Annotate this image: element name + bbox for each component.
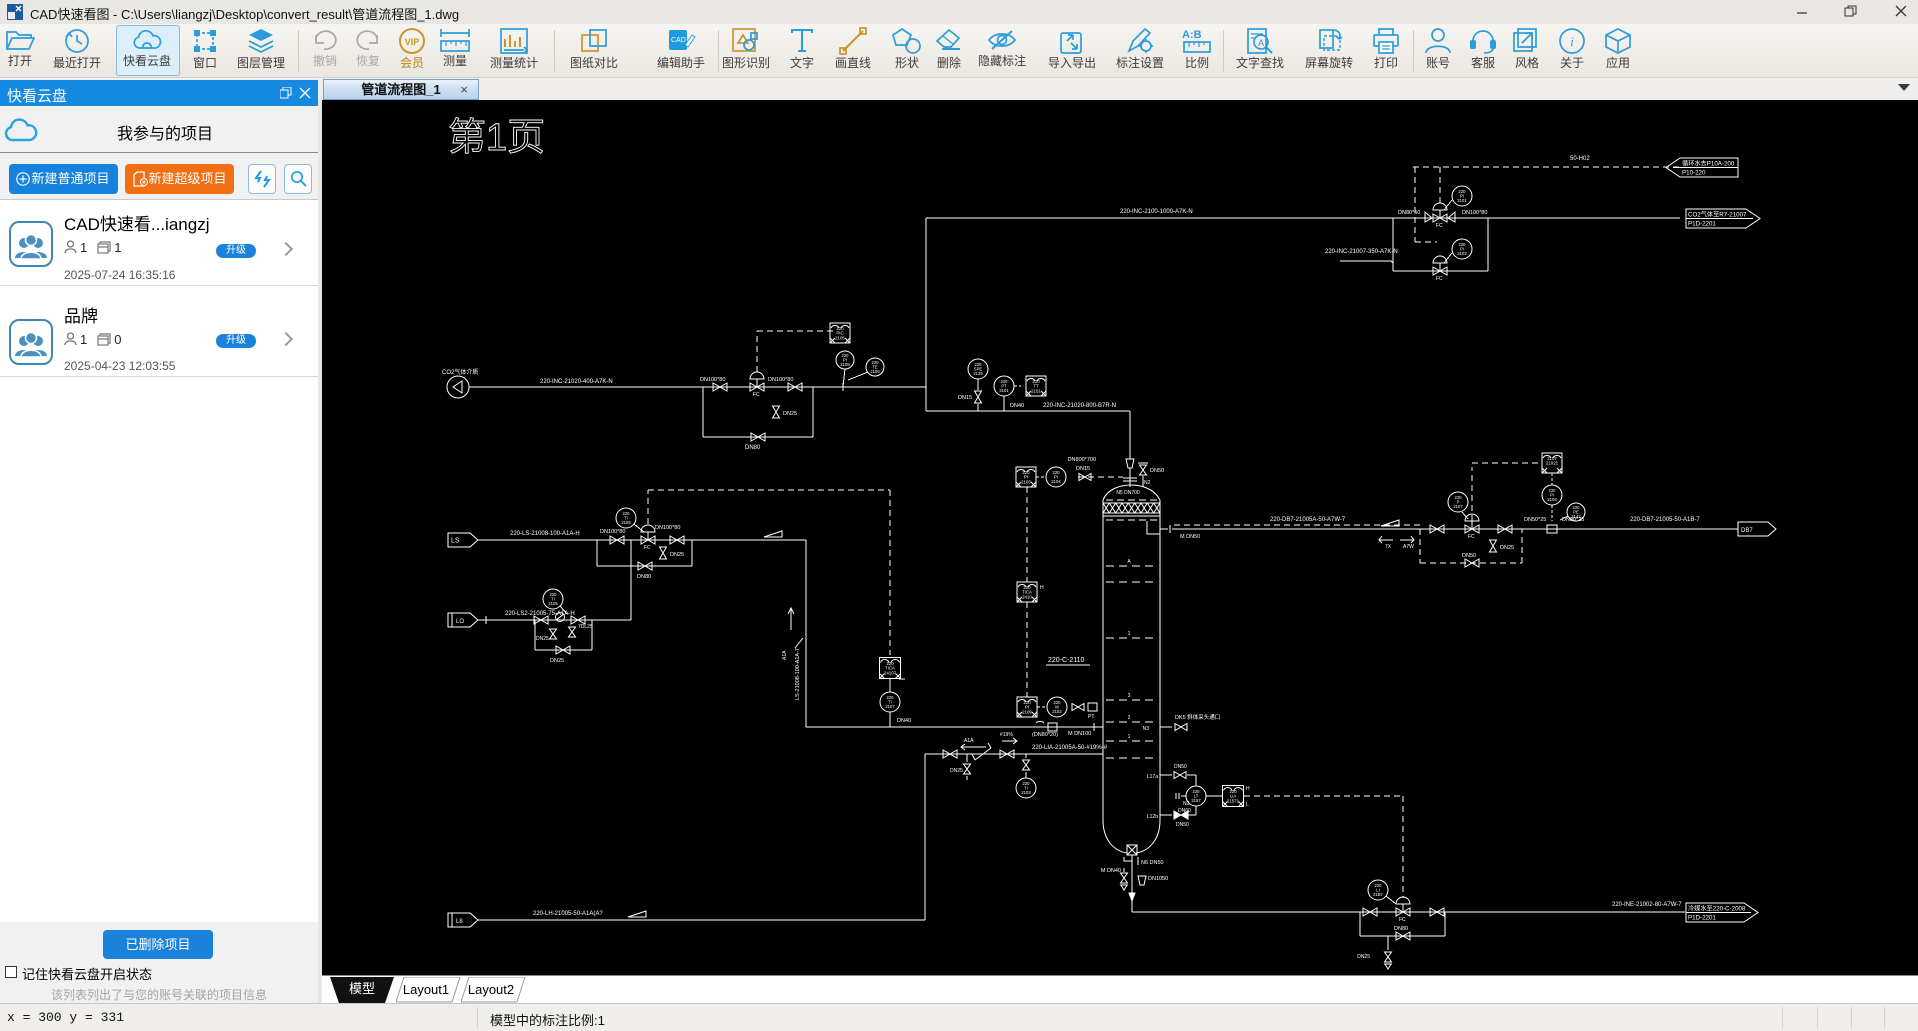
svg-text:L8: L8 bbox=[456, 919, 463, 925]
svg-text:DN100*80: DN100*80 bbox=[768, 377, 793, 383]
svg-text:DN80: DN80 bbox=[1394, 926, 1408, 932]
svg-text:DN50: DN50 bbox=[1176, 822, 1189, 828]
svg-text:DN15: DN15 bbox=[1076, 466, 1090, 472]
svg-text:2101: 2101 bbox=[999, 388, 1009, 393]
svg-text:7DL25: 7DL25 bbox=[578, 624, 593, 630]
svg-text:21B7: 21B7 bbox=[1373, 892, 1383, 897]
svg-text:N2: N2 bbox=[1144, 480, 1151, 486]
svg-text:2104: 2104 bbox=[1051, 479, 1061, 484]
svg-text:DN100*80: DN100*80 bbox=[700, 377, 725, 383]
svg-text:M DN50: M DN50 bbox=[1180, 534, 1200, 540]
svg-text:CO2气体介质: CO2气体介质 bbox=[442, 368, 478, 376]
svg-text:2102: 2102 bbox=[1457, 251, 1467, 256]
svg-text:DN80*25: DN80*25 bbox=[1562, 517, 1584, 523]
svg-text:220-C-2110: 220-C-2110 bbox=[1048, 657, 1085, 664]
svg-text:FC: FC bbox=[1468, 534, 1475, 540]
svg-text:2109: 2109 bbox=[1022, 709, 1032, 714]
svg-text:FC: FC bbox=[753, 392, 760, 398]
svg-text:DN15: DN15 bbox=[958, 395, 972, 401]
svg-text:DB7: DB7 bbox=[1741, 528, 1753, 534]
svg-text:A: A bbox=[1258, 38, 1264, 48]
svg-text:循环水去P10A-200: 循环水去P10A-200 bbox=[1682, 160, 1735, 168]
svg-text:50-H02: 50-H02 bbox=[1570, 156, 1590, 162]
svg-text:M DN40: M DN40 bbox=[1101, 868, 1121, 874]
svg-text:21021: 21021 bbox=[1546, 461, 1559, 466]
svg-text:H: H bbox=[1040, 585, 1044, 591]
svg-text:L17a: L17a bbox=[1147, 774, 1158, 780]
svg-text:A1A: A1A bbox=[782, 650, 788, 660]
svg-text:1: 1 bbox=[1128, 734, 1131, 740]
svg-text:24107: 24107 bbox=[884, 670, 897, 675]
svg-text:(DN80*20): (DN80*20) bbox=[1032, 732, 1058, 738]
svg-text:DN40: DN40 bbox=[897, 718, 911, 724]
svg-text:LO: LO bbox=[456, 619, 464, 625]
svg-text:H: H bbox=[1246, 786, 1250, 792]
svg-text:N5 DN700: N5 DN700 bbox=[1116, 490, 1140, 496]
svg-text:DN1050: DN1050 bbox=[1148, 876, 1168, 882]
svg-text:DN80*50: DN80*50 bbox=[1398, 210, 1420, 216]
svg-text:N3: N3 bbox=[1143, 726, 1150, 732]
svg-text:220-LIA-21005A-50-#19%-#: 220-LIA-21005A-50-#19%-# bbox=[1032, 745, 1108, 751]
svg-text:DN25: DN25 bbox=[950, 768, 963, 774]
svg-text:P1D-2201: P1D-2201 bbox=[1688, 221, 1716, 228]
svg-text:2108: 2108 bbox=[1547, 497, 1557, 502]
svg-text:220-INC-2100-1000-A7K-N: 220-INC-2100-1000-A7K-N bbox=[1120, 209, 1193, 215]
svg-text:2105: 2105 bbox=[840, 362, 850, 367]
svg-text:3: 3 bbox=[1128, 693, 1131, 699]
svg-text:DN80: DN80 bbox=[745, 445, 761, 451]
svg-text:220-LS-21008-100-A1A-H: 220-LS-21008-100-A1A-H bbox=[510, 531, 580, 537]
svg-text:PT: PT bbox=[1088, 714, 1094, 720]
svg-text:DN100*80: DN100*80 bbox=[600, 529, 625, 535]
svg-text:FC: FC bbox=[1399, 917, 1406, 923]
svg-text:FC: FC bbox=[644, 545, 651, 551]
svg-text:第1页: 第1页 bbox=[448, 117, 545, 159]
svg-text:DN100*80: DN100*80 bbox=[1462, 210, 1487, 216]
svg-text:A: A bbox=[1127, 559, 1131, 565]
svg-text:FC: FC bbox=[1436, 223, 1443, 229]
svg-text:DN25: DN25 bbox=[783, 411, 797, 417]
svg-text:2107: 2107 bbox=[885, 704, 895, 709]
svg-text:A:B: A:B bbox=[1182, 29, 1202, 41]
svg-text:N6 DN50: N6 DN50 bbox=[1141, 860, 1164, 866]
svg-text:2105: 2105 bbox=[621, 520, 631, 525]
svg-text:CAD: CAD bbox=[671, 37, 686, 44]
svg-text:2157: 2157 bbox=[1191, 798, 1201, 803]
svg-text:DN25: DN25 bbox=[670, 552, 684, 558]
svg-text:2107: 2107 bbox=[1453, 504, 1463, 509]
svg-text:L: L bbox=[1246, 802, 1249, 808]
svg-text:FC: FC bbox=[1436, 276, 1443, 282]
svg-text:DN50: DN50 bbox=[1462, 553, 1476, 559]
svg-text:DK5 斜体采头通口: DK5 斜体采头通口 bbox=[1175, 713, 1220, 721]
svg-text:CO2气体至R7-21007: CO2气体至R7-21007 bbox=[1688, 211, 1747, 219]
svg-text:DN40: DN40 bbox=[1010, 403, 1024, 409]
svg-text:#19%: #19% bbox=[1000, 732, 1013, 738]
svg-text:2410: 2410 bbox=[1022, 594, 1032, 599]
svg-text:DN25: DN25 bbox=[550, 658, 564, 664]
svg-text:LS-21008-100-A1A-7: LS-21008-100-A1A-7 bbox=[795, 648, 801, 700]
svg-text:DN80: DN80 bbox=[637, 574, 651, 580]
svg-text:LS: LS bbox=[451, 538, 460, 545]
svg-text:A7W: A7W bbox=[1403, 544, 1414, 550]
svg-text:DN25: DN25 bbox=[1357, 954, 1370, 960]
svg-text:2105: 2105 bbox=[835, 335, 845, 340]
svg-text:DN100*80: DN100*80 bbox=[655, 525, 680, 531]
svg-text:Layout2: Layout2 bbox=[468, 982, 514, 997]
svg-text:DN50: DN50 bbox=[1150, 468, 1164, 474]
svg-text:DN25: DN25 bbox=[1500, 545, 1514, 551]
svg-text:2106: 2106 bbox=[870, 369, 880, 374]
svg-text:P1D-2201: P1D-2201 bbox=[1688, 915, 1716, 922]
svg-text:2103: 2103 bbox=[1021, 479, 1031, 484]
svg-text:2101: 2101 bbox=[1457, 198, 1467, 203]
svg-text:220-INC-21020-800-B7R-N: 220-INC-21020-800-B7R-N bbox=[1043, 403, 1116, 409]
svg-text:DN50: DN50 bbox=[1174, 764, 1187, 770]
svg-text:2125: 2125 bbox=[973, 371, 983, 376]
svg-text:Layout1: Layout1 bbox=[403, 982, 449, 997]
svg-text:21571: 21571 bbox=[1227, 798, 1240, 803]
svg-text:2151: 2151 bbox=[1031, 388, 1041, 393]
svg-text:i: i bbox=[1570, 34, 1574, 49]
svg-text:7X: 7X bbox=[1385, 544, 1392, 550]
svg-text:2103: 2103 bbox=[1021, 790, 1031, 795]
svg-text:冷媒水至220-C-2008: 冷媒水至220-C-2008 bbox=[1688, 905, 1746, 913]
svg-text:220-INC-21020-400-A7K-N: 220-INC-21020-400-A7K-N bbox=[540, 379, 613, 385]
svg-text:2: 2 bbox=[1128, 715, 1131, 721]
svg-text:2105: 2105 bbox=[548, 601, 558, 606]
svg-text:220-DB7-21005A-50-A7W-7: 220-DB7-21005A-50-A7W-7 bbox=[1270, 517, 1346, 523]
svg-text:220-INE-21002-80-A7W-7: 220-INE-21002-80-A7W-7 bbox=[1612, 902, 1682, 908]
svg-text:DN800*700: DN800*700 bbox=[1068, 457, 1096, 463]
svg-text:L12b: L12b bbox=[1147, 814, 1158, 820]
svg-text:1: 1 bbox=[1128, 631, 1131, 637]
svg-text:220-INC-21007-350-A7K-N: 220-INC-21007-350-A7K-N bbox=[1325, 249, 1398, 255]
svg-text:220-LH-21005-50-A1A(A?: 220-LH-21005-50-A1A(A? bbox=[533, 911, 603, 917]
svg-text:2102: 2102 bbox=[1052, 709, 1062, 714]
svg-text:N2: N2 bbox=[1183, 801, 1190, 807]
svg-text:DN50*25: DN50*25 bbox=[1524, 517, 1546, 523]
svg-text:DN25: DN25 bbox=[536, 636, 549, 642]
svg-text:M DN100: M DN100 bbox=[1068, 731, 1091, 737]
svg-text:220-DB7-21005-50-A1B-7: 220-DB7-21005-50-A1B-7 bbox=[1630, 517, 1700, 523]
svg-text:A1A: A1A bbox=[964, 738, 974, 744]
svg-text:P10-220: P10-220 bbox=[1682, 170, 1706, 177]
